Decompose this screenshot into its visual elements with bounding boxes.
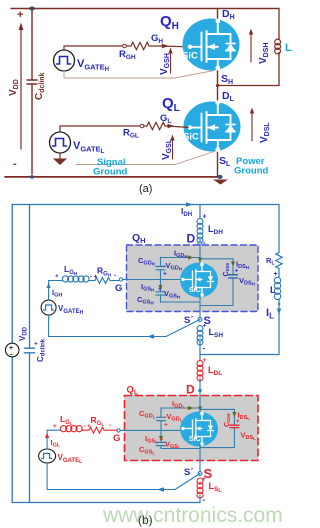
svg-text:+: + xyxy=(34,341,38,348)
box QH model xyxy=(127,245,259,312)
wire source spine QH xyxy=(199,295,201,320)
wire gate high arrow into QH xyxy=(161,45,188,48)
svg-text:D: D xyxy=(187,232,196,246)
svg-text:SiC: SiC xyxy=(183,132,199,143)
wire drain-source branch QL xyxy=(200,409,234,447)
wire SH to DL xyxy=(217,69,219,102)
arrow IL xyxy=(277,309,281,315)
wire gate low arrow into QL xyxy=(167,126,188,127)
voltage source VGATEH xyxy=(54,50,75,71)
svg-text:+: + xyxy=(160,437,164,444)
resistor RGH (b) xyxy=(89,278,119,284)
svg-text:-: - xyxy=(109,422,111,429)
capacitor Cdclink (b) xyxy=(29,205,31,503)
wire bottom rail xyxy=(5,176,221,178)
svg-text:-: - xyxy=(203,495,206,504)
wire gate top xyxy=(49,280,62,282)
arrow VDSH xyxy=(250,33,252,62)
resistor RL xyxy=(276,205,282,271)
svg-text:+: + xyxy=(163,271,167,278)
svg-text:+: + xyxy=(236,418,240,425)
capacitor CGDH xyxy=(156,266,165,268)
arrow IGDH xyxy=(188,255,194,259)
inductor L (b) xyxy=(278,270,280,277)
capacitor CDSL xyxy=(230,424,239,426)
box QL model xyxy=(125,396,259,461)
svg-text:(b): (b) xyxy=(138,513,153,527)
svg-text:+: + xyxy=(235,268,239,275)
capacitor CGSL xyxy=(157,441,166,443)
wire gate return QL xyxy=(47,463,200,490)
svg-text:S´: S´ xyxy=(184,467,194,478)
svg-text:G: G xyxy=(113,433,120,444)
arrow IDSL xyxy=(232,412,236,417)
arrow IGSH xyxy=(158,285,162,290)
svg-text:Ground: Ground xyxy=(234,166,268,177)
terminal circle RGH xyxy=(123,44,127,48)
voltage source VGATEL (b) xyxy=(39,449,56,463)
arrow IDH on top rail xyxy=(186,202,193,207)
wire gate top QL xyxy=(47,429,60,431)
wire gate-source branch QH xyxy=(160,280,162,292)
wire spine to D node xyxy=(199,240,201,244)
wire internal gate-drain top QL xyxy=(161,408,200,417)
terminal circle RGL xyxy=(140,124,144,128)
capacitor Cdclink xyxy=(31,9,33,81)
node at Cdclink bottom xyxy=(30,175,35,179)
wire source spine QL xyxy=(199,444,201,474)
wire gate low xyxy=(60,126,140,132)
node D low xyxy=(198,389,201,392)
wire LSH to mid junction xyxy=(199,342,201,359)
wire top rail b xyxy=(12,204,279,206)
transistor QH (b) xyxy=(180,263,218,298)
wire kelvin source high xyxy=(64,71,214,79)
inductor LGL xyxy=(60,426,82,432)
inductor LSH xyxy=(197,326,203,346)
svg-text:Ground: Ground xyxy=(93,167,127,178)
inductor LGH xyxy=(62,276,89,282)
svg-text:-: - xyxy=(278,299,281,308)
wire top rail xyxy=(11,8,279,10)
wire gate loop up xyxy=(48,281,50,301)
wire gate loop up QL xyxy=(46,430,48,449)
wire gate return QH xyxy=(49,315,200,336)
svg-text:L: L xyxy=(285,42,292,54)
inductor LDH xyxy=(197,219,203,244)
wire drain-source branch QH xyxy=(200,259,233,306)
arrow drain QL internal xyxy=(198,407,202,412)
wire gate-source branch QL xyxy=(160,430,162,442)
wire spine inside QH box xyxy=(199,244,201,263)
svg-text:-: - xyxy=(10,350,13,359)
voltage source VGATEH (b) xyxy=(41,300,56,315)
wire spine inside QL box xyxy=(199,391,201,414)
wire drain high xyxy=(217,9,219,21)
arrow IDSH xyxy=(231,262,235,267)
svg-text:+: + xyxy=(53,423,57,430)
svg-text:+: + xyxy=(203,214,207,221)
wire CGD to gate wire xyxy=(160,270,162,280)
VDD arrow xyxy=(20,28,22,149)
arrow IGH xyxy=(47,283,51,288)
svg-text:+: + xyxy=(158,286,162,293)
svg-text:-: - xyxy=(13,158,17,170)
node SL rail xyxy=(217,175,222,179)
arrow VGSL xyxy=(172,139,174,159)
wire CGS to source QH xyxy=(161,295,201,302)
node at Cdclink top xyxy=(29,7,35,11)
wire G terminal to box QH xyxy=(123,279,127,281)
wire LSL to bottom rail xyxy=(199,495,201,503)
resistor RGL (b) xyxy=(83,427,117,433)
voltage source VGATEL xyxy=(50,132,71,153)
wire spine top xyxy=(199,205,201,219)
capacitor CGDL xyxy=(157,416,166,418)
arrow gate return QL xyxy=(157,487,164,492)
arrow IGL xyxy=(45,433,49,438)
wire gate high xyxy=(64,46,123,50)
svg-text:-: - xyxy=(114,273,116,280)
transistor QL xyxy=(184,102,241,152)
ground signal xyxy=(59,153,61,158)
svg-text:Coss: Coss xyxy=(224,413,232,427)
svg-text:Coss: Coss xyxy=(223,263,231,277)
wire CGDL to gate wire xyxy=(160,421,162,431)
wire load branch right xyxy=(218,9,280,86)
inductor LSL xyxy=(197,478,203,498)
wire bottom rail b xyxy=(12,502,200,504)
arrow IGDL xyxy=(188,406,194,410)
wire gate QH xyxy=(127,279,182,281)
svg-text:(a): (a) xyxy=(139,183,152,195)
wire internal gate-drain top QH xyxy=(161,258,201,267)
capacitor CDSH xyxy=(229,274,238,276)
wire load return xyxy=(200,354,279,356)
wire kelvin source low xyxy=(76,152,214,165)
capacitor CGSH xyxy=(156,291,165,293)
node SH junction xyxy=(216,84,219,87)
arrow IGSL xyxy=(159,436,163,441)
arrow VGSH xyxy=(170,52,172,73)
svg-text:D: D xyxy=(186,383,195,397)
svg-text:S´: S´ xyxy=(184,315,194,326)
transistor QL (b) xyxy=(180,412,218,447)
node S QH xyxy=(198,318,202,322)
terminal G QL xyxy=(117,429,120,432)
arrow drain QH internal xyxy=(198,258,202,263)
svg-text:SiC: SiC xyxy=(189,436,201,443)
arrow gate return QH xyxy=(147,334,154,339)
node S QL xyxy=(198,472,202,476)
svg-text:L: L xyxy=(270,285,276,296)
ground power xyxy=(213,180,228,185)
svg-text:www.cntronics.com: www.cntronics.com xyxy=(102,504,283,527)
svg-text:+: + xyxy=(55,273,59,280)
inductor L load (a) xyxy=(275,39,281,54)
svg-text:SiC: SiC xyxy=(182,51,198,62)
node D high xyxy=(198,242,202,246)
wire gate QL xyxy=(125,429,182,431)
svg-text:+: + xyxy=(164,422,168,429)
svg-text:SiC: SiC xyxy=(189,287,201,294)
resistor RGL xyxy=(144,122,167,129)
transistor QH xyxy=(183,19,240,71)
wire CGSL to source QL xyxy=(161,446,200,449)
wire LDL to D low xyxy=(199,378,201,390)
svg-text:G: G xyxy=(115,283,122,294)
resistor RGH xyxy=(126,42,161,49)
terminal G QH xyxy=(119,278,122,281)
arrow VDSL xyxy=(251,112,253,141)
wire SL to rail xyxy=(217,151,219,177)
wire G terminal to box QL xyxy=(120,429,124,431)
voltage source VDD (b) xyxy=(5,343,19,357)
svg-text:+: + xyxy=(17,9,23,21)
svg-text:-: - xyxy=(203,344,206,353)
wire left rail b xyxy=(11,205,13,503)
